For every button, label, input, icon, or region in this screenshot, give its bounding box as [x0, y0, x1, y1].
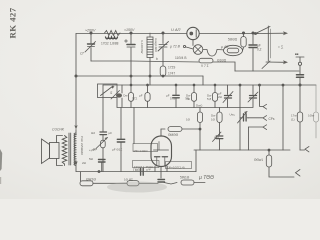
svg-text:≈ ∑: ≈ ∑	[278, 45, 284, 49]
svg-text:µ/Ω: µ/Ω	[214, 135, 220, 139]
svg-text:7Θ: 7Θ	[186, 97, 191, 101]
resistor Urdox oval	[224, 45, 244, 55]
boxed label winding	[133, 144, 192, 169]
left block verticals	[103, 85, 134, 172]
svg-text:5IN1Θ: 5IN1Θ	[180, 176, 190, 180]
scan artifact streak left edge	[0, 149, 2, 184]
svg-text:b: b	[156, 57, 158, 61]
node x283	[282, 84, 284, 86]
resistor R10	[212, 85, 217, 108]
wire top rail left	[76, 33, 187, 35]
contact K2	[249, 116, 267, 121]
node c4 top	[252, 32, 254, 34]
lamp La2 scale lamp	[183, 40, 223, 56]
wire heater rail h5	[103, 84, 316, 86]
wire x150 drop	[149, 58, 151, 86]
node r3 joint	[162, 75, 164, 77]
switch S1 upper arm with mains arrow	[255, 26, 289, 61]
resistor R15 series jog	[127, 181, 158, 186]
svg-text:≈200V: ≈200V	[85, 29, 96, 33]
resistor R4 vertical	[160, 62, 166, 76]
resistor R3 capsule	[199, 58, 213, 63]
svg-text:1Θ ΘΣ: 1Θ ΘΣ	[124, 178, 133, 182]
resistor R2 tapped ladder	[147, 33, 153, 58]
row A rail dots	[130, 84, 132, 86]
capacitor C10 trimmer left	[238, 111, 249, 123]
svg-text:µΨ: µΨ	[147, 168, 152, 172]
node top-left junction	[90, 32, 92, 34]
wire row A bottom rail	[117, 98, 253, 108]
capacitor C1 trimmer	[85, 33, 96, 61]
tube pins	[155, 166, 167, 172]
svg-text:µF Θ1Σ: µF Θ1Σ	[112, 148, 122, 152]
svg-text:Θ2: Θ2	[91, 131, 95, 135]
svg-text:µF: µF	[166, 94, 170, 98]
node y150	[268, 149, 270, 151]
resistor R7	[128, 85, 133, 108]
capacitor C13	[98, 160, 105, 173]
resistor R13	[266, 150, 294, 177]
arrow into transformer	[74, 125, 77, 171]
svg-text:17Σ9: 17Σ9	[168, 66, 176, 70]
svg-text:U AΠ: U AΠ	[171, 27, 181, 32]
svg-text:57Σ: 57Σ	[170, 97, 175, 101]
svg-text:ΘΜΘΘ: ΘΜΘΘ	[168, 133, 179, 137]
capacitor C8 trimmer	[248, 85, 258, 107]
inductor L1 under R1	[106, 37, 118, 39]
svg-text:µ ΤΘΘ: µ ΤΘΘ	[199, 175, 214, 181]
contact K1	[260, 85, 267, 109]
lamp La1 circle	[187, 27, 199, 39]
svg-text:ΘΘw1: ΘΘw1	[254, 158, 263, 162]
svg-text:1Θ: 1Θ	[186, 118, 191, 122]
node mid junction	[130, 32, 132, 34]
capacitor C2 electrolytic	[125, 33, 136, 61]
svg-text:≈150V: ≈150V	[124, 28, 135, 32]
capacitor C3 trimmer	[158, 33, 169, 62]
capacitor C12	[96, 132, 108, 149]
svg-text:5,8: 5,8	[207, 97, 212, 101]
svg-text:5ΘΘΩ: 5ΘΘΩ	[228, 38, 238, 42]
bottom right leads	[158, 150, 196, 184]
capacitor C14	[117, 139, 124, 142]
svg-text:1Θw: 1Θw	[308, 114, 315, 118]
svg-text:µ 72 B: µ 72 B	[170, 45, 181, 49]
resistor R9	[191, 85, 196, 108]
wire bottom-right rail y150	[194, 149, 290, 151]
resistor R11	[197, 108, 202, 151]
svg-text:Θ1ΘΩ: Θ1ΘΩ	[217, 59, 227, 63]
svg-text:RK 427: RK 427	[8, 7, 18, 38]
resistor R8	[145, 85, 150, 108]
wire heater rail h4	[76, 75, 203, 77]
switch S1 lower arm with mains arrow	[262, 60, 288, 68]
wire x283 vertical	[282, 85, 284, 150]
resistor R1 zigzag	[105, 31, 121, 36]
svg-text:■■: ■■	[295, 52, 299, 56]
wire h3	[235, 70, 299, 72]
tiny labels	[52, 27, 315, 182]
wire box bottom rail	[91, 61, 199, 62]
svg-text:Prim 2x5ΘΘΩ: Prim 2x5ΘΘΩ	[80, 136, 84, 156]
tuning box with arrow	[98, 84, 118, 98]
capacitor C5 trimmer with blob	[111, 85, 122, 107]
transformer T1 output	[62, 133, 75, 166]
svg-text:CUCHK: CUCHK	[52, 128, 65, 132]
svg-text:X-100/4W: X-100/4W	[140, 40, 144, 54]
node left rail joint	[75, 75, 77, 77]
tube V1 UCL11 envelope	[151, 136, 172, 167]
wire top rail right of lamp	[199, 33, 258, 35]
resistor R5	[241, 33, 246, 47]
capacitor C4	[249, 33, 257, 71]
capacitor C7	[223, 85, 233, 108]
resistor R14 capsule top of tube	[168, 127, 182, 132]
wire x131 drop	[130, 61, 132, 85]
svg-text:17Ω2 1,8/88: 17Ω2 1,8/88	[101, 42, 119, 46]
resistor R16 capsule	[181, 180, 205, 185]
node right junction	[162, 32, 164, 34]
node dots on h5	[239, 84, 241, 86]
svg-text:V 7 Σ: V 7 Σ	[201, 64, 209, 68]
svg-text:CPs: CPs	[269, 117, 275, 121]
svg-text:1Ψ≈1Θ7(1:4): 1Ψ≈1Θ7(1:4)	[167, 166, 185, 170]
wire left vertical rail	[75, 34, 77, 128]
svg-text:µ 4Θ: µ 4Θ	[221, 45, 229, 49]
svg-text:1Θ: 1Θ	[211, 118, 216, 122]
svg-text:ΘΨ1Θ: ΘΨ1Θ	[86, 178, 96, 182]
node r5 top	[242, 32, 244, 34]
svg-text:(1): (1)	[291, 118, 295, 122]
svg-text:Dw(): Dw()	[196, 103, 202, 107]
svg-text:+µΨ: +µΨ	[89, 148, 95, 152]
capacitor C15 series in rail	[141, 168, 144, 175]
switch contact right top	[305, 147, 309, 152]
svg-text:11Θ/4 B: 11Θ/4 B	[175, 56, 186, 60]
svg-text:Uw₁: Uw₁	[230, 113, 235, 117]
resistor R6 right column	[297, 112, 304, 150]
svg-text:2Θ: 2Θ	[218, 95, 223, 99]
svg-text:5Θ: 5Θ	[89, 157, 94, 161]
wire to right corner	[213, 62, 235, 71]
svg-text:0,2: 0,2	[257, 48, 262, 52]
grid line to tube	[161, 129, 200, 136]
svg-text:ΨΦ≈14ΘΩ: ΨΦ≈14ΘΩ	[133, 149, 148, 153]
smudge bottom center	[107, 182, 167, 193]
capacitor C11 with arrow	[213, 132, 223, 150]
contact K3	[249, 125, 267, 150]
capacitor C6	[173, 85, 179, 108]
wire corner down	[202, 76, 204, 85]
switch contact bottom right	[296, 170, 301, 177]
svg-text:µF: µF	[139, 94, 143, 98]
svg-text:2Θ: 2Θ	[82, 161, 87, 165]
speaker LS	[42, 136, 63, 166]
svg-text:ΓΜΘ5: ΓΜΘ5	[133, 168, 142, 172]
wire mid vertical x240	[239, 85, 241, 150]
antenna column	[296, 57, 304, 112]
wire bottom rail y172	[76, 171, 196, 173]
svg-text:µF: µF	[109, 131, 113, 135]
box component 5W10	[80, 172, 127, 186]
svg-text:Ausgl.4kΩ: Ausgl.4kΩ	[154, 38, 158, 53]
svg-text:57Σ: 57Σ	[132, 97, 137, 101]
resistor R12	[217, 108, 222, 136]
faint right vertical	[314, 85, 319, 138]
title RK 427	[8, 7, 18, 38]
svg-text:1747: 1747	[168, 72, 175, 76]
